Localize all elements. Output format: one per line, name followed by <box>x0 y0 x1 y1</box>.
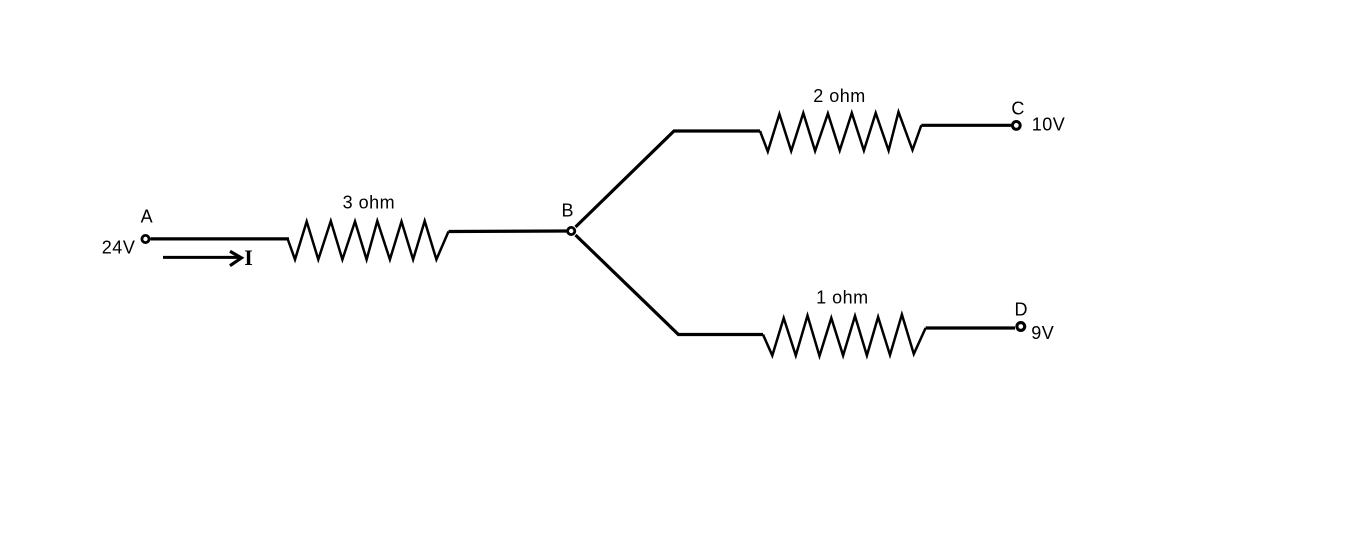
wire B to R2 diagonal <box>576 131 761 227</box>
svg-text:24V: 24V <box>102 238 136 258</box>
svg-text:10V: 10V <box>1032 115 1066 135</box>
svg-text:3 ohm: 3 ohm <box>343 192 396 212</box>
terminal D <box>1017 323 1025 331</box>
node B <box>568 227 575 234</box>
svg-text:B: B <box>562 201 575 221</box>
resistor R1 3 ohm <box>288 221 449 260</box>
wire B to R3 diagonal <box>576 235 764 335</box>
svg-text:C: C <box>1011 99 1025 119</box>
svg-text:I: I <box>244 245 253 270</box>
wire R2 to terminal C <box>921 124 1011 127</box>
svg-text:1 ohm: 1 ohm <box>816 288 869 308</box>
svg-text:9V: 9V <box>1031 323 1054 343</box>
resistor R3 1 ohm <box>763 315 926 357</box>
wire R3 to terminal D <box>926 326 1015 329</box>
wire A to R1 <box>151 237 290 240</box>
terminal C <box>1012 122 1020 130</box>
svg-text:D: D <box>1015 300 1029 320</box>
terminal A <box>142 235 149 242</box>
svg-text:2 ohm: 2 ohm <box>813 86 866 106</box>
svg-text:A: A <box>141 207 154 227</box>
current arrow I <box>163 251 241 265</box>
wire R1 to node B <box>449 229 568 233</box>
resistor R2 2 ohm <box>760 112 921 152</box>
